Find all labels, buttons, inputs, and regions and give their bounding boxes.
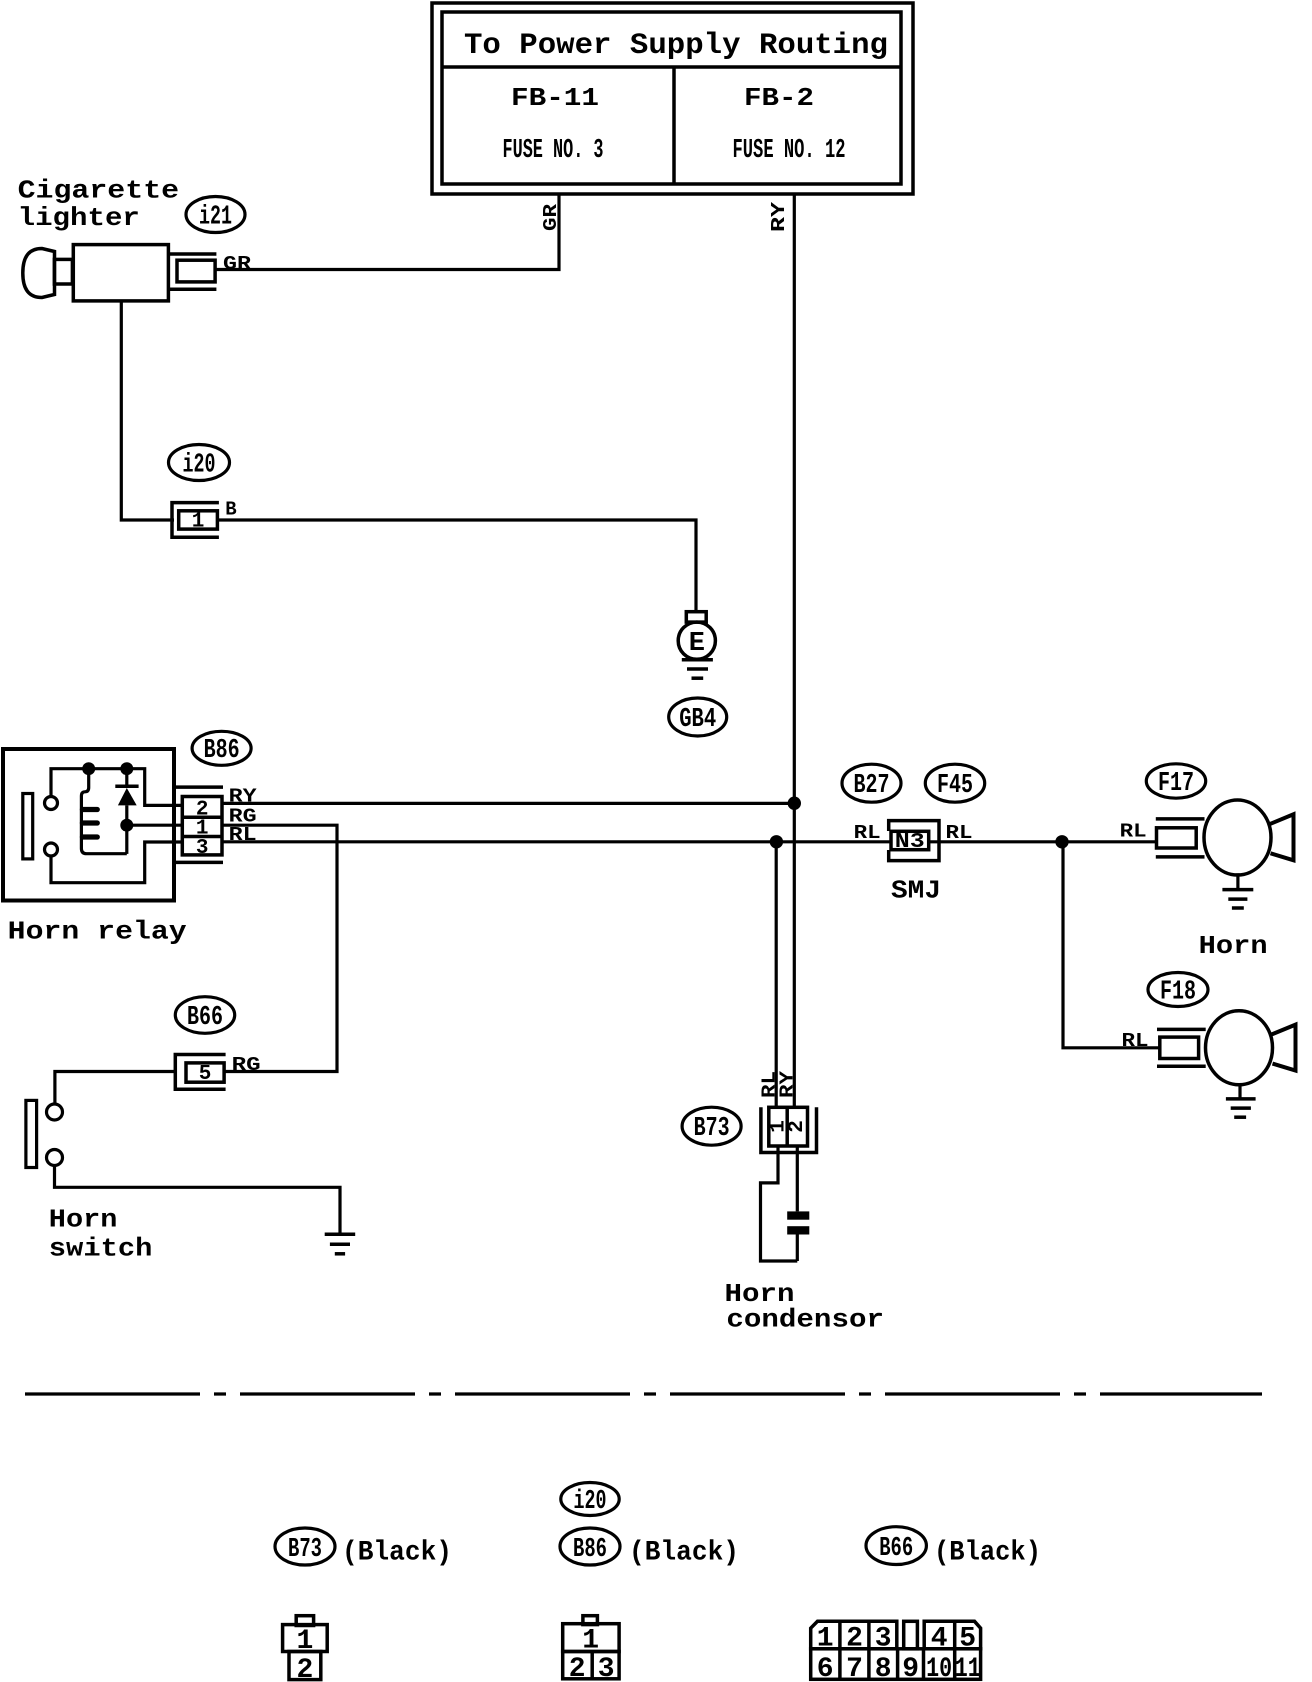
svg-text:B66: B66 bbox=[879, 1534, 913, 1564]
wire RL vertical to horn condensor bbox=[775, 842, 778, 1108]
svg-text:(Black): (Black) bbox=[342, 1538, 452, 1569]
horn relay box bbox=[3, 749, 174, 901]
wire RG relay pin1 to horn switch connector bbox=[222, 825, 337, 1071]
svg-text:RL: RL bbox=[1120, 821, 1147, 843]
svg-text:1: 1 bbox=[192, 511, 205, 534]
svg-text:1: 1 bbox=[817, 1624, 834, 1655]
svg-text:11: 11 bbox=[955, 1654, 981, 1682]
svg-text:B66: B66 bbox=[187, 1003, 223, 1033]
svg-text:5: 5 bbox=[959, 1624, 976, 1655]
svg-text:F17: F17 bbox=[1158, 769, 1194, 799]
svg-text:5: 5 bbox=[199, 1063, 212, 1086]
svg-text:1: 1 bbox=[582, 1625, 599, 1656]
svg-text:i21: i21 bbox=[199, 203, 232, 233]
svg-text:RY: RY bbox=[777, 1070, 799, 1098]
connector i20 label bbox=[169, 445, 230, 481]
svg-text:RL: RL bbox=[1122, 1030, 1149, 1052]
wire RY from FB-2 fuse down to junction and horn condensor bbox=[793, 194, 796, 1107]
wire capacitor to loop bbox=[796, 1235, 799, 1262]
pictogram connector B86 bbox=[563, 1616, 619, 1682]
wire relay bottom contact to pin 3 bbox=[51, 842, 183, 883]
wire condensor pin 1 loop bbox=[761, 1146, 798, 1261]
relay diode bbox=[115, 769, 138, 854]
wire condensor pin 2 to capacitor bbox=[796, 1146, 799, 1211]
svg-text:3: 3 bbox=[875, 1624, 892, 1655]
svg-text:N3: N3 bbox=[895, 831, 925, 854]
wire diode junction to pin 1 bbox=[127, 824, 183, 827]
svg-text:6: 6 bbox=[817, 1654, 834, 1682]
junction dot diode bottom bbox=[120, 819, 133, 832]
connector i20 bbox=[172, 503, 219, 538]
connector B66 bbox=[175, 1055, 225, 1090]
power supply routing box bbox=[432, 3, 913, 194]
svg-text:To Power Supply Routing: To Power Supply Routing bbox=[464, 29, 888, 63]
svg-text:Horn: Horn bbox=[49, 1205, 118, 1235]
horn switch contact top bbox=[47, 1104, 63, 1120]
junction dot horn branch bbox=[1055, 835, 1068, 848]
svg-text:B: B bbox=[225, 499, 236, 521]
horn F18 symbol bbox=[1206, 1011, 1296, 1085]
svg-text:2: 2 bbox=[296, 1655, 313, 1682]
capacitor plates bbox=[787, 1211, 809, 1234]
horn condensor label bbox=[725, 1279, 885, 1335]
svg-text:GB4: GB4 bbox=[679, 705, 716, 735]
svg-text:B73: B73 bbox=[694, 1114, 730, 1144]
wire B to ground bbox=[217, 520, 696, 612]
svg-text:RG: RG bbox=[232, 1054, 261, 1076]
wire horn switch to ground bbox=[55, 1166, 341, 1233]
svg-text:E: E bbox=[689, 629, 705, 659]
junction dot RL bbox=[770, 835, 783, 848]
svg-text:10: 10 bbox=[926, 1654, 952, 1682]
legend connector B73 label bbox=[275, 1528, 335, 1565]
svg-text:3: 3 bbox=[196, 837, 209, 860]
svg-text:1: 1 bbox=[296, 1626, 313, 1657]
horn switch contact bottom bbox=[47, 1150, 63, 1166]
junction dot diode top bbox=[120, 762, 133, 775]
cigarette lighter symbol bbox=[23, 245, 169, 301]
node GB4 bbox=[669, 698, 727, 736]
ground at horn F17 bbox=[1222, 873, 1253, 908]
svg-text:condensor: condensor bbox=[726, 1305, 884, 1335]
junction dot RY bbox=[788, 797, 801, 810]
svg-text:4: 4 bbox=[931, 1624, 948, 1655]
connector B73 bbox=[761, 1107, 817, 1152]
svg-text:FUSE NO. 12: FUSE NO. 12 bbox=[733, 136, 846, 166]
svg-text:B86: B86 bbox=[204, 736, 240, 766]
svg-text:9: 9 bbox=[902, 1654, 919, 1682]
connector F17 label bbox=[1146, 764, 1205, 799]
svg-text:RY: RY bbox=[768, 201, 790, 232]
svg-text:3: 3 bbox=[598, 1654, 615, 1682]
relay contact top bbox=[45, 797, 58, 810]
svg-text:FB-11: FB-11 bbox=[511, 83, 599, 113]
svg-text:B73: B73 bbox=[288, 1535, 322, 1565]
junction dot coil top bbox=[82, 762, 95, 775]
connector B66 label bbox=[175, 997, 234, 1034]
cigarette lighter label bbox=[18, 176, 180, 234]
svg-text:8: 8 bbox=[875, 1654, 892, 1682]
horn switch bar bbox=[26, 1100, 37, 1167]
svg-text:FUSE NO. 3: FUSE NO. 3 bbox=[503, 136, 604, 166]
svg-text:GR: GR bbox=[540, 203, 562, 231]
svg-text:Horn: Horn bbox=[1199, 931, 1268, 961]
relay armature bar bbox=[23, 794, 33, 859]
svg-text:2: 2 bbox=[786, 1120, 809, 1133]
pictogram connector B66 bbox=[811, 1621, 981, 1682]
pictogram connector B73 bbox=[283, 1616, 328, 1682]
connector B27 label bbox=[842, 764, 901, 802]
svg-text:B27: B27 bbox=[854, 771, 890, 801]
svg-text:B86: B86 bbox=[573, 1535, 607, 1565]
relay coil bbox=[81, 769, 126, 854]
connector F18 label bbox=[1148, 973, 1208, 1008]
svg-text:F45: F45 bbox=[937, 771, 973, 801]
svg-text:switch: switch bbox=[49, 1234, 153, 1264]
svg-text:(Black): (Black) bbox=[629, 1538, 739, 1569]
svg-text:lighter: lighter bbox=[18, 203, 140, 233]
legend connector B66 label bbox=[866, 1527, 926, 1565]
horn F17 symbol bbox=[1204, 800, 1294, 875]
horn F18 connector pins bbox=[1157, 1029, 1206, 1066]
legend connector B86 label bbox=[560, 1528, 620, 1565]
svg-text:i20: i20 bbox=[183, 451, 216, 481]
ground at horn F18 bbox=[1226, 1085, 1256, 1118]
wire horn switch to connector B66 bbox=[55, 1072, 175, 1105]
connector i21 label bbox=[186, 197, 245, 233]
svg-text:2: 2 bbox=[846, 1624, 863, 1655]
svg-text:i20: i20 bbox=[574, 1487, 607, 1517]
SMJ connector N3 bbox=[889, 821, 939, 861]
legend connector i20 label bbox=[561, 1483, 619, 1518]
svg-text:GR: GR bbox=[223, 253, 252, 275]
horn switch label bbox=[49, 1205, 153, 1264]
wire B from lighter to connector i20 bbox=[121, 301, 174, 520]
connector B73 label bbox=[682, 1107, 741, 1145]
ground E bbox=[678, 612, 715, 679]
svg-text:FB-2: FB-2 bbox=[744, 83, 814, 113]
svg-text:Horn relay: Horn relay bbox=[8, 917, 187, 947]
wire relay top to pin 2 bbox=[51, 769, 183, 806]
divider line bbox=[25, 1392, 1262, 1395]
wire RL relay pin3 to SMJ bbox=[222, 840, 891, 843]
svg-text:(Black): (Black) bbox=[934, 1538, 1041, 1569]
ground at horn switch bbox=[325, 1234, 356, 1254]
wire RL to horn F18 bbox=[1063, 842, 1160, 1048]
wire RL from SMJ to horn F17 bbox=[929, 840, 1157, 843]
wire GR from FB-11 fuse to cigarette lighter bbox=[216, 194, 559, 270]
svg-text:RL: RL bbox=[854, 822, 881, 844]
svg-text:SMJ: SMJ bbox=[891, 876, 941, 906]
svg-text:2: 2 bbox=[569, 1654, 586, 1682]
horn F17 connector pins bbox=[1156, 819, 1205, 857]
relay contact bottom bbox=[45, 843, 58, 856]
connector i21 pins bbox=[170, 254, 217, 289]
svg-text:Cigarette: Cigarette bbox=[18, 176, 180, 206]
svg-text:F18: F18 bbox=[1160, 978, 1196, 1008]
connector B86 label bbox=[192, 731, 251, 766]
wire RY relay pin2 to RY vertical bbox=[222, 802, 794, 805]
svg-text:7: 7 bbox=[846, 1654, 863, 1682]
connector F45 label bbox=[925, 764, 984, 802]
connector B86 at relay bbox=[175, 787, 223, 862]
